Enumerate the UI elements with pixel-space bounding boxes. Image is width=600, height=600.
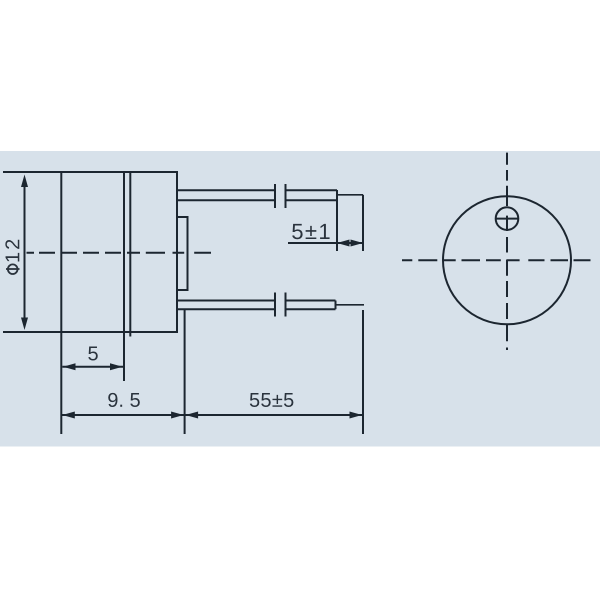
circle view: big circle bbox=[443, 196, 571, 324]
bottom lead upper line bbox=[178, 300, 336, 302]
body bottom edge + phi12 bottom extension line bbox=[3, 331, 178, 333]
bottom dimension line 9.5 / 55+-5 bbox=[61, 414, 363, 416]
9.5 left arrowhead bbox=[62, 412, 75, 419]
5+-1 dimension line bbox=[288, 242, 363, 244]
5+-1 extension line left bbox=[336, 190, 338, 251]
bottom lead thin tip wire bbox=[336, 304, 364, 306]
5+-1 label bbox=[292, 224, 329, 239]
body left edge (extends down as extension line) bbox=[60, 172, 62, 434]
9.5 label bbox=[108, 393, 140, 407]
5+-1 left arrowhead bbox=[337, 240, 350, 247]
phi12 label: phi symbol (rotated glyph drawn manually) bbox=[6, 264, 20, 274]
9.5 right arrowhead bbox=[171, 412, 184, 419]
5+-1 right arrowhead bbox=[351, 240, 364, 247]
side view dashed centerline bbox=[27, 252, 212, 254]
terminal protrusion bbox=[177, 217, 188, 290]
body right edge bbox=[176, 172, 178, 332]
55+-5 left arrowhead bbox=[186, 412, 199, 419]
5 dim left arrowhead bbox=[63, 363, 76, 370]
phi12 label: digits 12 (rotated) bbox=[5, 240, 19, 262]
blue drawing band bbox=[0, 151, 600, 447]
top lead lower line bbox=[178, 199, 337, 201]
circle vertical dashed centerline bbox=[506, 153, 508, 350]
5 dim right arrowhead bbox=[110, 363, 123, 370]
5 dimension line bbox=[62, 366, 123, 368]
small hole horizontal diameter line bbox=[496, 218, 519, 220]
phi12 arrowhead down bbox=[21, 318, 28, 331]
55+-5 label bbox=[250, 393, 294, 407]
phi12 dimension line bbox=[24, 180, 26, 325]
bottom lead break bars bbox=[275, 293, 286, 317]
bottom lead end cap bbox=[335, 301, 337, 310]
top lead upper line bbox=[178, 189, 337, 191]
top lead thin tip wire bbox=[337, 194, 363, 196]
bottom lead lower line bbox=[178, 308, 336, 310]
extension line at lead tip bbox=[362, 310, 364, 434]
extension line at lead root bbox=[184, 310, 186, 434]
5 label bbox=[88, 347, 97, 361]
top lead break bars bbox=[275, 184, 286, 208]
phi12 arrowhead up bbox=[21, 175, 28, 188]
55+-5 right arrowhead bbox=[350, 412, 363, 419]
5+-1 extension line right bbox=[362, 195, 364, 251]
flange double line B bbox=[129, 172, 131, 337]
circle horizontal dashed centerline bbox=[402, 259, 591, 261]
circle view: small hole circle bbox=[496, 207, 519, 230]
flange double line A (extends down as extension line for 5) bbox=[123, 172, 125, 381]
body top edge + phi12 top extension line bbox=[3, 171, 178, 173]
